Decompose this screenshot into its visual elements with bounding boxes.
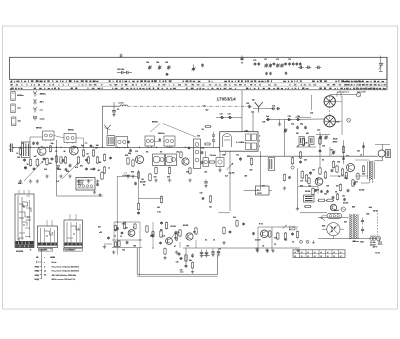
SK1 caption — [16, 250, 24, 253]
svg-text:2u2: 2u2 — [162, 236, 165, 238]
capacitor C111 — [93, 167, 96, 170]
resistor R32 — [296, 230, 298, 238]
svg-text:22: 22 — [314, 256, 316, 258]
svg-text:5p6: 5p6 — [81, 145, 84, 147]
capacitor C51 — [309, 171, 312, 175]
trimmer C63 — [148, 65, 152, 69]
label T1 — [36, 127, 42, 130]
transistor T4 — [182, 158, 189, 165]
dial scale numbers row 2 — [11, 84, 377, 85]
capacitor C68 — [201, 63, 204, 67]
label BC148 mid — [140, 181, 146, 184]
dial backplate box — [10, 57, 388, 79]
svg-text:82: 82 — [87, 154, 89, 156]
ground G14 — [296, 249, 299, 253]
resistor R89 — [114, 241, 116, 247]
wire bridge bottom — [332, 236, 334, 239]
wire horiz y176r — [330, 175, 348, 177]
wire col E x363 — [363, 142, 365, 156]
SK1 inner contacts — [18, 196, 31, 241]
svg-text:n1: n1 — [108, 168, 110, 170]
legend antenna symbol A4 — [33, 116, 36, 120]
svg-text:C24: C24 — [297, 115, 300, 118]
svg-text:2k7: 2k7 — [316, 179, 319, 181]
svg-text:L14: L14 — [310, 112, 313, 115]
wire bus vertical x56 — [56, 140, 58, 196]
svg-text:2k2: 2k2 — [167, 177, 170, 179]
capacitor C93 — [296, 126, 299, 130]
legend label A4 — [40, 118, 46, 120]
label T10 — [120, 227, 134, 238]
wire fm front vert x311 — [310, 95, 312, 110]
capacitor C60b — [116, 227, 119, 231]
pot P2 arrow — [283, 225, 288, 228]
svg-text:22: 22 — [320, 256, 322, 258]
resistor R67 — [223, 227, 225, 235]
gang link dashed — [329, 96, 331, 127]
coil L5 box — [299, 137, 304, 145]
svg-text:n22: n22 — [308, 186, 311, 188]
svg-text:150: 150 — [133, 246, 136, 248]
labels top right band — [264, 59, 291, 61]
resistor R87 — [205, 126, 212, 128]
svg-text:220: 220 — [66, 171, 69, 173]
wire fm osc row — [295, 116, 311, 118]
wire col B x320 — [319, 132, 321, 168]
svg-text:4k7: 4k7 — [250, 169, 253, 172]
wire T6 rails — [258, 227, 278, 250]
capacitor C23 — [287, 116, 291, 121]
svg-text:EL95: EL95 — [333, 139, 337, 141]
svg-text:2x25: 2x25 — [369, 207, 373, 209]
label R18 — [167, 177, 170, 179]
capacitor C62c — [160, 221, 163, 225]
ground G17 — [296, 207, 299, 211]
label left extra 1 — [22, 143, 66, 153]
ground G5 — [59, 174, 62, 178]
svg-text:4u7: 4u7 — [225, 175, 228, 178]
value labels driver — [255, 238, 294, 248]
resistor R18 — [168, 166, 170, 174]
svg-text:150: 150 — [324, 194, 327, 196]
svg-text:L12: L12 — [251, 112, 254, 114]
resistor R10 — [87, 156, 89, 164]
resistor R45 — [326, 199, 334, 201]
note row 3 text — [52, 270, 80, 273]
trimmer C71 group — [264, 62, 275, 67]
svg-text:osc: osc — [85, 143, 88, 145]
svg-text:2 x OA70 ●: 2 x OA70 ● — [236, 141, 246, 144]
transistor T2 BF195 — [69, 146, 78, 155]
capacitor C59 above title — [240, 56, 243, 64]
trimmer C91 — [318, 135, 322, 139]
resistor R85 — [103, 154, 105, 162]
resistor R27 — [185, 254, 187, 262]
svg-text:S9: S9 — [202, 129, 204, 131]
ground G3 — [36, 179, 39, 183]
svg-text:3p9: 3p9 — [266, 116, 269, 118]
gang capacitor C90b — [324, 116, 335, 127]
capacitor C106 — [24, 166, 27, 169]
capacitor C112 — [109, 156, 112, 159]
svg-text:S20: S20 — [362, 174, 365, 176]
capacitor C10 — [129, 149, 132, 153]
wire x117 vert — [116, 176, 118, 222]
svg-text:12k: 12k — [209, 207, 212, 209]
SK3 caption box — [64, 248, 83, 251]
resistor R13 — [49, 145, 51, 153]
svg-text:56p: 56p — [51, 143, 54, 145]
wire transformer feed — [318, 216, 349, 218]
resistor R26 — [250, 157, 253, 171]
dial scale rule 2 — [10, 82, 388, 84]
svg-text:n22: n22 — [204, 172, 207, 174]
label C43 — [219, 248, 221, 250]
label GA — [56, 181, 59, 183]
svg-text:mel.: mel. — [17, 108, 21, 110]
node dots bus — [20, 147, 187, 148]
resistor R88 — [134, 223, 136, 230]
note row 4 text — [52, 274, 77, 277]
resistor R60 — [98, 169, 104, 180]
resistor R31 — [277, 232, 279, 240]
resistor R79 col A — [299, 151, 301, 159]
wire gang right — [335, 101, 342, 121]
SK1 extra contacts — [19, 204, 31, 241]
capacitor C14 — [85, 158, 88, 162]
capacitor C76 pair — [296, 62, 302, 66]
capacitor C22 — [266, 116, 270, 121]
trimmer C64 — [158, 65, 162, 69]
svg-text:220: 220 — [304, 160, 307, 162]
legend label J2 — [17, 108, 22, 110]
capacitor C101 col A — [299, 160, 302, 164]
capacitor C98 — [342, 157, 345, 161]
capacitor C77 — [298, 66, 304, 69]
pointer line BF254 — [150, 124, 196, 138]
switch box SK1 — [15, 194, 34, 248]
capacitor C107 — [33, 167, 36, 170]
svg-text:2k: 2k — [178, 232, 180, 234]
resistor R82 — [336, 193, 338, 201]
svg-text:word.: word. — [40, 118, 46, 120]
label under SK1 — [30, 249, 32, 251]
svg-text:10k: 10k — [122, 250, 125, 252]
label L1 — [119, 103, 124, 105]
dial scale left start marks — [10, 81, 12, 90]
svg-text:15: 15 — [274, 244, 276, 246]
coil L6 box — [309, 137, 314, 145]
ground G7 — [77, 179, 80, 183]
label gang — [296, 132, 309, 135]
svg-text:n47: n47 — [34, 155, 37, 158]
node dots bus 2 — [30, 147, 170, 148]
capacitor C38 — [252, 232, 255, 236]
lamp dashed link — [376, 210, 378, 236]
capacitor C65c — [202, 197, 205, 200]
capacitor C67c — [288, 176, 291, 179]
pin block U1b — [246, 143, 257, 150]
capacitor C69c — [343, 198, 346, 201]
svg-text:MA 1: MA 1 — [18, 182, 22, 185]
svg-text:C90: C90 — [336, 122, 339, 124]
svg-text:a b c d: a b c d — [78, 184, 83, 186]
svg-text:log 10k: log 10k — [229, 173, 235, 175]
wire detector feed x240 — [241, 90, 243, 132]
choke box S14 — [268, 158, 275, 171]
svg-text:C40: C40 — [201, 147, 204, 150]
resistor R62 — [149, 173, 152, 182]
resistor R90 — [152, 231, 154, 238]
resistor R52 — [165, 222, 167, 230]
resistor R70 — [312, 188, 314, 196]
connector X1 dense text — [77, 180, 94, 189]
ground G23 — [154, 178, 157, 182]
capacitor C96 — [319, 149, 322, 153]
capacitor C72 pair — [265, 72, 271, 75]
capacitor C115 — [121, 232, 124, 235]
SK2 caption box — [39, 248, 53, 251]
svg-text:270: 270 — [274, 238, 277, 240]
svg-text:S2: S2 — [22, 143, 24, 145]
label under L20 — [202, 129, 204, 131]
svg-text:220 V~: 220 V~ — [373, 246, 378, 248]
resistor R5 — [55, 155, 57, 163]
trimmer C67 — [191, 65, 195, 72]
trimmer C92 — [324, 135, 328, 139]
resistor R34 — [291, 157, 294, 169]
capacitor C3 — [32, 141, 35, 145]
svg-text:R15: R15 — [125, 155, 128, 157]
capacitor C1 gnd — [112, 102, 119, 117]
resistor R53 — [175, 233, 177, 241]
svg-text:22: 22 — [301, 256, 303, 258]
legend label A3 — [40, 110, 44, 112]
svg-text:1k0: 1k0 — [58, 169, 61, 171]
switch box SK3 — [64, 220, 83, 248]
svg-text:39p: 39p — [300, 124, 303, 126]
legend label A2 — [40, 101, 45, 104]
wire amp cluster bot — [112, 247, 142, 249]
transistor T5 — [186, 233, 193, 240]
svg-text:C18: C18 — [262, 122, 265, 124]
wire dipole link — [253, 107, 272, 109]
svg-text:a1: a1 — [314, 252, 316, 254]
wire bus bottom left — [57, 195, 104, 197]
transistor T9 — [330, 204, 336, 210]
ground G15 — [255, 247, 258, 251]
antenna FM dipole — [252, 99, 263, 113]
capacitor C78 — [306, 66, 312, 69]
svg-text:BC148: BC148 — [140, 181, 145, 184]
wire horiz y134 — [316, 134, 330, 136]
svg-text:@1 kHz: @1 kHz — [370, 242, 376, 244]
capacitor C108 — [57, 167, 60, 170]
resistor R42 — [301, 170, 304, 179]
wire y255 stub — [202, 255, 210, 257]
ground G27 — [222, 241, 225, 245]
label mid extra — [125, 136, 200, 158]
resistor R58 — [284, 232, 286, 240]
svg-text:AM: 1400 kHz/4 tot FM/0 MHz: AM: 1400 kHz/4 tot FM/0 MHz — [52, 274, 77, 277]
svg-text:C60: C60 — [366, 214, 369, 216]
svg-text:68: 68 — [306, 143, 308, 145]
svg-text:1k: 1k — [213, 240, 215, 242]
resistor R76 — [0, 0, 1, 1]
pin labels U1 — [259, 136, 260, 149]
wire vol drop x230 — [229, 151, 231, 211]
dial scale right dense rows — [344, 81, 386, 89]
svg-text:AE f.: AE f. — [40, 101, 45, 104]
svg-text:1k2: 1k2 — [344, 178, 347, 180]
resistor R56 — [114, 225, 116, 232]
resistor R57 — [160, 230, 162, 238]
ground G4 — [45, 174, 48, 178]
ground G30 — [175, 250, 178, 254]
ground G12 — [266, 249, 269, 253]
resistor R30 — [269, 230, 271, 238]
ground S12 — [218, 167, 221, 173]
resistor R2 — [27, 158, 32, 166]
capacitor C100 — [362, 145, 365, 149]
svg-text:5: 5 — [259, 136, 260, 138]
note row 2 symbol — [35, 266, 46, 268]
transistor T7 output — [347, 164, 355, 172]
svg-text:n5: n5 — [262, 246, 264, 248]
capacitor C74 — [285, 72, 287, 75]
capacitor C50 — [331, 169, 334, 173]
pilot lamp E1 — [376, 236, 380, 240]
svg-text:BF194: BF194 — [36, 127, 41, 130]
resistor R64 — [160, 196, 162, 204]
SK3 label strip — [65, 243, 82, 246]
capacitor C102 — [314, 189, 317, 192]
label mains — [373, 246, 378, 248]
capacitor C5 — [51, 157, 54, 161]
wire stub below SK2 — [45, 248, 51, 251]
wire det right x260 — [259, 151, 261, 190]
svg-text:n68: n68 — [244, 176, 247, 178]
capacitor C104 — [242, 222, 245, 225]
capacitor C11 between cans — [159, 138, 161, 141]
resistor R73 — [319, 167, 321, 175]
SK2 inner contacts — [41, 228, 55, 243]
legend antenna symbol A3 — [33, 107, 37, 112]
capacitor C66c — [229, 230, 232, 233]
wire speaker top — [375, 144, 390, 150]
svg-text:68k: 68k — [189, 260, 192, 262]
capacitor C6 — [69, 164, 72, 168]
value labels output — [337, 162, 365, 184]
ground G13 — [271, 249, 274, 253]
capacitor C94 — [304, 126, 307, 130]
svg-text:5k6: 5k6 — [300, 186, 303, 188]
driver block dark — [304, 195, 315, 202]
capacitor C42 gnd — [211, 249, 214, 257]
legend antenna symbol A1 — [33, 91, 37, 96]
connector board X1 — [76, 178, 95, 191]
capacitor C105 — [179, 257, 183, 260]
capacitor C70b — [96, 183, 99, 187]
SK1 label strip — [16, 241, 34, 247]
resistor R4 — [46, 157, 52, 165]
trimmer C95 — [283, 128, 287, 132]
svg-text:56k: 56k — [125, 228, 128, 230]
wire x138 vert — [138, 170, 140, 203]
dial scale numbers row 3 — [11, 88, 384, 90]
label above table right — [353, 240, 376, 246]
dial scale right end cap — [386, 57, 388, 90]
note row 5 symbol — [35, 278, 42, 281]
wire x153 vert — [152, 222, 154, 248]
note row 4 symbol — [35, 275, 47, 277]
ground G19 — [98, 193, 101, 197]
capacitor C39 — [291, 232, 294, 236]
coil L1 — [120, 105, 128, 106]
resistor R11 — [92, 148, 98, 158]
svg-text:56k: 56k — [193, 232, 196, 234]
capacitor C8 — [43, 157, 46, 161]
node dots amp — [117, 221, 154, 248]
wire amp cluster top — [114, 221, 140, 223]
svg-text:AFSTEM: AFSTEM — [16, 250, 24, 253]
svg-text:C65: C65 — [165, 62, 168, 64]
ground G20 — [163, 256, 166, 260]
svg-text:AM kr. tussen: 520 t/m/7 5,0: AM kr. tussen: 520 t/m/7 5,0 — [52, 278, 75, 281]
wire col D x343 — [343, 140, 345, 164]
ground G18 — [112, 250, 115, 254]
note row 5 text — [52, 278, 76, 281]
wire bottom bus mid — [183, 247, 300, 249]
trimmer C80 — [378, 56, 383, 72]
label amp left — [98, 226, 102, 235]
connector twin-lead — [9, 144, 14, 153]
ground G22 — [131, 174, 134, 178]
svg-text:n15: n15 — [300, 181, 303, 183]
resistor R51 — [118, 240, 120, 248]
svg-text:22: 22 — [333, 256, 335, 258]
capacitor C99 — [353, 182, 356, 186]
wire gang vert x342 — [341, 96, 343, 135]
capacitor C24 — [296, 115, 300, 121]
capacitor C70 pair — [253, 60, 260, 66]
label title 17053/14 — [217, 97, 237, 102]
resistor R28 — [179, 229, 181, 237]
svg-text:150: 150 — [337, 162, 340, 164]
label mixer — [85, 143, 88, 145]
resistor R50 — [123, 222, 125, 230]
svg-text:C63: C63 — [146, 62, 149, 64]
pot arrow P3 — [172, 233, 176, 239]
resistor R75 — [342, 146, 344, 154]
svg-text:C23: C23 — [288, 116, 291, 118]
resistor R44 — [318, 199, 326, 201]
label right mid 2 — [300, 179, 355, 209]
svg-text:SP(V): SP(V) — [35, 267, 40, 269]
legend label J3 — [18, 121, 22, 123]
capacitor C41 gnd — [205, 250, 208, 258]
svg-text:C75: C75 — [288, 59, 291, 61]
note row 2 text — [52, 265, 80, 268]
resistor R77 — [357, 173, 359, 181]
antenna AM symbol — [104, 125, 111, 135]
svg-text:R50: R50 — [247, 156, 250, 158]
wire af link y213 — [219, 212, 231, 214]
svg-text:C91: C91 — [322, 146, 325, 148]
ground G26 under X1 — [93, 190, 96, 194]
power transformer S21 — [350, 214, 358, 239]
resistor R17 — [155, 166, 157, 174]
